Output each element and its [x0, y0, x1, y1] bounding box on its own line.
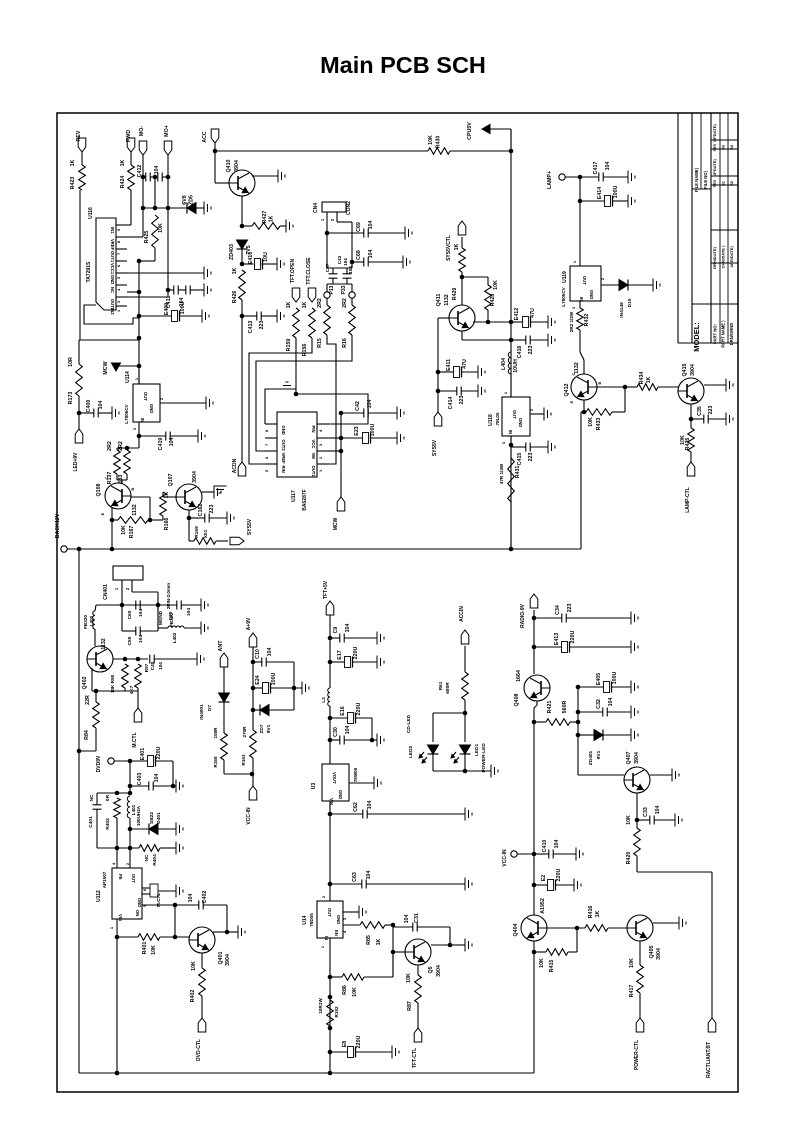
- svg-text:ON: ON: [135, 910, 140, 916]
- svg-text:220U: 220U: [356, 1035, 362, 1048]
- capacitor C412: [137, 165, 150, 182]
- svg-text:220U: 220U: [356, 702, 362, 715]
- svg-text:C48: C48: [150, 661, 155, 670]
- wire: [489, 129, 511, 151]
- wire: [252, 758, 254, 786]
- svg-text:R415: R415: [549, 960, 555, 973]
- svg-text:6V8: 6V8: [182, 195, 188, 204]
- svg-text:VOUT: VOUT: [332, 772, 337, 784]
- wire: [597, 385, 627, 390]
- svg-text:DRN/GRND: DRN/GRND: [729, 323, 734, 346]
- svg-text:C410: C410: [542, 840, 548, 853]
- svg-text:IN: IN: [324, 936, 329, 940]
- ground: [238, 926, 245, 939]
- capacitor C410: [542, 840, 560, 859]
- wire: [141, 175, 171, 180]
- ground: [574, 879, 581, 892]
- svg-text:C413: C413: [248, 321, 254, 334]
- IC U117 BA6287F: [277, 412, 317, 511]
- svg-text:U3: U3: [311, 783, 317, 790]
- svg-text:104: 104: [138, 609, 144, 617]
- capacitor C32: [596, 698, 614, 717]
- svg-text:1K: 1K: [120, 159, 126, 166]
- title block table: [678, 113, 738, 352]
- wire: [343, 911, 359, 913]
- wire: [608, 927, 627, 929]
- svg-text:RIN: RIN: [281, 466, 286, 473]
- wire: [330, 637, 377, 639]
- wire loop R15-OUT1: [327, 335, 336, 464]
- wire: [187, 516, 227, 521]
- svg-text:CN4: CN4: [313, 203, 319, 213]
- svg-text:104: 104: [366, 871, 372, 880]
- svg-text:R433: R433: [596, 418, 602, 431]
- wire: [704, 384, 726, 386]
- wire: [139, 315, 202, 317]
- terminal ACC: [202, 129, 219, 143]
- svg-text:VREF: VREF: [110, 239, 115, 251]
- svg-text:DVD9V: DVD9V: [96, 755, 102, 772]
- wire: [116, 818, 118, 848]
- ground: [628, 171, 635, 184]
- svg-text:OUT: OUT: [512, 410, 517, 419]
- svg-text:C35: C35: [697, 406, 703, 416]
- transistor Q108: [96, 476, 138, 515]
- ground: [286, 220, 293, 233]
- svg-text:UPDATE): UPDATE): [712, 159, 717, 177]
- wire: [174, 905, 176, 937]
- resistor R167: [118, 517, 148, 539]
- ground: [465, 878, 472, 891]
- terminal DVD-CTL: [196, 1018, 206, 1061]
- wire: [330, 739, 377, 741]
- wire: [534, 928, 577, 952]
- terminal TFT.OPEN: [290, 259, 300, 302]
- svg-text:REV: REV: [713, 143, 717, 151]
- svg-text:104: 104: [158, 662, 163, 670]
- svg-text:NC: NC: [110, 287, 115, 293]
- svg-text:FB320: FB320: [83, 615, 88, 629]
- wire: [137, 422, 142, 448]
- electrolytic E17: [337, 646, 359, 667]
- resistor R415: [539, 949, 568, 973]
- wire: [534, 853, 576, 855]
- wire BACK12V rail: [67, 547, 581, 552]
- capacitor C33: [643, 806, 661, 825]
- svg-text:100U: 100U: [370, 423, 376, 436]
- svg-text:NC: NC: [89, 794, 95, 801]
- wire: [601, 284, 619, 286]
- svg-text:C400: C400: [86, 400, 92, 413]
- transistor Q407: [624, 751, 650, 793]
- svg-text:IN2: IN2: [110, 308, 115, 315]
- svg-text:C401: C401: [88, 816, 94, 828]
- capacitor C70: [168, 601, 192, 621]
- resistor R417: [629, 958, 643, 997]
- svg-text:3904: 3904: [436, 965, 442, 977]
- wire: [112, 474, 127, 485]
- wire loop U116 pin1: [84, 305, 139, 324]
- svg-text:L7806CV: L7806CV: [124, 403, 129, 423]
- IC U114 L7806CV: [124, 371, 164, 430]
- electrolytic E411: [446, 359, 468, 378]
- svg-text:1K: 1K: [302, 301, 308, 308]
- wire: [110, 507, 115, 549]
- transistor Q405: [627, 915, 662, 960]
- svg-text:223: 223: [708, 406, 714, 415]
- ground: [278, 170, 285, 183]
- zener ZD5: [182, 195, 196, 214]
- capacitor C42: [355, 400, 373, 418]
- wire: [122, 605, 158, 631]
- terminal M.CTL: [132, 708, 142, 748]
- svg-text:RADIO-9V: RADIO-9V: [520, 603, 526, 628]
- wire: [350, 260, 403, 265]
- resistor R429: [452, 243, 465, 300]
- svg-text:C43: C43: [337, 255, 342, 264]
- wire VCC col: [339, 411, 344, 497]
- ground: [201, 622, 208, 635]
- wire: [637, 819, 675, 821]
- svg-text:CON2: CON2: [346, 201, 352, 215]
- title Main PCB SCH: [320, 52, 486, 78]
- ground: [672, 769, 679, 782]
- resistor R433: [586, 409, 612, 431]
- wire: [438, 318, 449, 412]
- svg-text:3904: 3904: [656, 948, 662, 960]
- svg-text:9V1: 9V1: [596, 750, 602, 759]
- svg-text:SYS5V: SYS5V: [247, 518, 253, 535]
- wire: [158, 604, 201, 606]
- svg-text:E: E: [569, 400, 574, 403]
- svg-text:E16: E16: [340, 706, 346, 715]
- wire: [137, 691, 139, 708]
- svg-text:104: 104: [154, 166, 160, 175]
- capacitor C401: [88, 805, 102, 828]
- wire: [156, 761, 176, 788]
- ground: [631, 612, 638, 625]
- svg-text:M.CTL: M.CTL: [156, 893, 161, 907]
- wire: [327, 232, 405, 234]
- svg-text:L400: L400: [89, 615, 94, 626]
- svg-text:R404: R404: [152, 854, 158, 866]
- svg-text:C: C: [104, 476, 109, 479]
- capacitor C67: [325, 263, 338, 278]
- electrolytic E8: [342, 1035, 362, 1057]
- svg-text:R417: R417: [629, 985, 635, 998]
- wire: [532, 941, 537, 1073]
- wire: [127, 208, 168, 297]
- svg-text:C403: C403: [137, 773, 143, 786]
- ground: [277, 310, 284, 323]
- resistor R427: [252, 211, 280, 230]
- resistor R61: [438, 672, 468, 700]
- wire: [215, 182, 229, 184]
- wire: [578, 711, 631, 713]
- wire: [113, 657, 148, 662]
- svg-text:OUT2: OUT2: [281, 440, 286, 452]
- svg-text:BACK12V: BACK12V: [55, 513, 61, 538]
- svg-text:VM: VM: [311, 453, 316, 460]
- wire: [534, 884, 574, 886]
- svg-text:U14: U14: [302, 915, 308, 924]
- ground: [631, 706, 638, 719]
- svg-text:C62: C62: [353, 802, 359, 812]
- ground: [377, 656, 384, 669]
- svg-text:CHK/DATE ): CHK/DATE ): [721, 245, 726, 268]
- wire: [511, 321, 548, 323]
- ground: [198, 430, 205, 443]
- svg-text:Q408: Q408: [514, 693, 520, 706]
- svg-text:C416: C416: [517, 346, 523, 359]
- wire: [139, 435, 198, 437]
- resistor R435: [680, 428, 694, 452]
- svg-text:IN: IN: [140, 418, 145, 422]
- svg-text:223: 223: [567, 604, 573, 613]
- svg-text:C402: C402: [202, 891, 208, 904]
- capacitor C417: [593, 162, 611, 182]
- svg-text:104: 104: [368, 250, 374, 259]
- svg-text:100R: 100R: [213, 727, 218, 739]
- svg-text:R192: R192: [334, 1006, 339, 1017]
- wire VCC bus: [137, 261, 142, 384]
- svg-text:Q402: Q402: [82, 676, 88, 689]
- wire: [639, 993, 641, 1018]
- ground: [374, 777, 381, 790]
- ground: [679, 917, 686, 930]
- wire: [223, 667, 225, 693]
- svg-text:LAMP+: LAMP+: [547, 171, 553, 189]
- svg-text:ACDN: ACDN: [232, 458, 238, 473]
- wire: [127, 236, 143, 238]
- ground: [631, 729, 638, 742]
- svg-text:ZD5: ZD5: [189, 195, 195, 205]
- ground: [204, 284, 211, 297]
- ground: [548, 334, 555, 347]
- IC U118 78L05: [488, 391, 534, 444]
- wire: [583, 400, 585, 412]
- ground: [397, 432, 404, 445]
- svg-text:E17: E17: [337, 650, 343, 659]
- ground: [214, 486, 227, 493]
- wire: [330, 952, 393, 977]
- wire: [227, 931, 238, 933]
- ground: [675, 814, 682, 827]
- wire: [417, 1003, 419, 1028]
- wire: [603, 176, 628, 178]
- svg-text:2R2: 2R2: [107, 441, 113, 451]
- svg-text:R86: R86: [342, 985, 348, 995]
- svg-text:104: 104: [154, 774, 160, 783]
- svg-text:E405: E405: [596, 673, 602, 685]
- wire: [689, 404, 694, 428]
- terminal VCC-IN right: [502, 849, 517, 867]
- transistor Q412: [564, 362, 602, 403]
- wire: [582, 410, 587, 415]
- capacitor C68: [356, 250, 374, 267]
- terminal SYS5V right: [230, 518, 253, 545]
- svg-text:R434: R434: [639, 372, 645, 385]
- wire bottom rail: [79, 1071, 534, 1076]
- wire: [534, 646, 631, 648]
- wire: [532, 610, 537, 674]
- diode D401 SB22: [149, 812, 162, 835]
- svg-text:E2: E2: [541, 875, 547, 882]
- svg-text:CN401: CN401: [103, 584, 109, 600]
- wire pin2: [330, 212, 352, 262]
- svg-text:SYS5V: SYS5V: [432, 439, 438, 456]
- svg-text:PART NAME ): PART NAME ): [721, 320, 726, 348]
- svg-text:10K R98: 10K R98: [110, 674, 115, 693]
- wire: [242, 263, 277, 265]
- wire: [137, 248, 155, 263]
- wire: [639, 941, 641, 965]
- wire: [464, 646, 466, 672]
- svg-text:10K: 10K: [588, 417, 594, 427]
- terminal RADIO-9V: [520, 594, 538, 628]
- svg-text:ZD403: ZD403: [229, 244, 235, 260]
- svg-text:IN4148: IN4148: [619, 302, 625, 318]
- svg-text:GND: GND: [281, 426, 286, 435]
- wire: [532, 854, 537, 912]
- svg-text:1K: 1K: [269, 215, 275, 222]
- svg-text:R156: R156: [302, 344, 308, 357]
- svg-text:TFT.CLOSE: TFT.CLOSE: [306, 257, 312, 285]
- svg-text:104: 104: [188, 894, 194, 903]
- svg-text:78W05: 78W05: [353, 767, 358, 782]
- terminal TFT.CLOSE: [306, 257, 316, 302]
- resistor R404: [139, 845, 160, 866]
- wire: [160, 935, 189, 940]
- wire: [188, 510, 190, 541]
- wire: [327, 262, 352, 292]
- wire: [224, 760, 254, 776]
- svg-text:B: B: [130, 487, 135, 490]
- ground: [227, 512, 234, 525]
- wire: [112, 497, 163, 522]
- ground: [176, 780, 183, 793]
- svg-text:E: E: [100, 512, 105, 515]
- terminal ACDN: [232, 458, 246, 476]
- svg-text:R173: R173: [68, 392, 74, 405]
- IC U119 L7805CV: [561, 260, 605, 309]
- svg-text:VCC1: VCC1: [110, 263, 115, 275]
- wire: [327, 298, 352, 305]
- svg-text:223: 223: [459, 396, 465, 405]
- capacitor C9: [333, 624, 351, 643]
- wire: [130, 828, 176, 830]
- wire: [628, 284, 653, 286]
- svg-text:100U: 100U: [271, 672, 277, 685]
- svg-text:PART NO:: PART NO:: [713, 324, 718, 344]
- transistor Q401: [189, 927, 231, 966]
- svg-text:R426: R426: [232, 291, 238, 304]
- svg-text:680R: 680R: [445, 682, 451, 694]
- wire: [252, 175, 278, 177]
- ground: [478, 366, 485, 379]
- svg-text:R424: R424: [120, 176, 126, 189]
- svg-text:C68: C68: [356, 250, 362, 260]
- wire: [330, 718, 374, 742]
- wire: [127, 224, 131, 226]
- wire: [330, 1051, 392, 1053]
- svg-text:R428: R428: [490, 294, 496, 307]
- svg-text:TA7291S: TA7291S: [86, 261, 92, 282]
- wire: [163, 492, 176, 497]
- svg-text:C42: C42: [355, 401, 361, 411]
- svg-text:FILE NAME): FILE NAME): [694, 167, 699, 192]
- resistor R432: [569, 308, 590, 332]
- wire: [79, 728, 96, 751]
- svg-text:AP1507: AP1507: [102, 871, 107, 888]
- svg-text:CPU5V: CPU5V: [467, 122, 473, 140]
- svg-text:10K: 10K: [191, 961, 197, 971]
- wire: [223, 702, 225, 733]
- capacitor C419: [158, 432, 175, 451]
- svg-text:GND: GND: [110, 275, 115, 284]
- ground: [726, 413, 733, 426]
- capacitor C48: [144, 655, 155, 673]
- electrolytic E401: [140, 746, 162, 766]
- svg-text:E414: E414: [597, 187, 603, 199]
- capacitor C62: [353, 801, 373, 819]
- svg-text:1K: 1K: [646, 376, 652, 383]
- capacitor C35: [697, 406, 714, 424]
- svg-text:E412: E412: [514, 308, 520, 320]
- terminal MO-: [139, 126, 147, 155]
- electrolytic E16: [340, 702, 362, 723]
- resistor R84: [84, 695, 99, 740]
- svg-text:MCW: MCW: [333, 517, 339, 530]
- svg-text:NC: NC: [144, 854, 150, 861]
- resistor R434: [637, 372, 658, 391]
- svg-text:VCC-IN: VCC-IN: [246, 807, 252, 825]
- wire: [534, 720, 580, 725]
- wire: [436, 389, 478, 394]
- svg-text:1K: 1K: [232, 267, 238, 274]
- svg-text:220U: 220U: [353, 646, 359, 659]
- capacitor C415: [517, 443, 534, 466]
- svg-text:VREF: VREF: [281, 453, 286, 465]
- ground: [201, 599, 208, 612]
- wire: [114, 759, 148, 764]
- svg-text:10R: 10R: [68, 357, 74, 367]
- label CD-LED: [406, 714, 412, 733]
- ground: [359, 906, 366, 919]
- ground: [465, 808, 472, 821]
- ground: [112, 407, 119, 420]
- wire ACDN drop: [241, 316, 243, 462]
- electrolytic E413: [554, 630, 576, 652]
- svg-text:104: 104: [655, 806, 661, 815]
- svg-text:C32: C32: [596, 699, 602, 709]
- wire: [391, 950, 405, 955]
- wire: [463, 700, 468, 742]
- svg-text:R421: R421: [547, 701, 553, 714]
- electrolytic E414: [597, 185, 619, 206]
- resistor R421: [546, 700, 570, 725]
- svg-text:104: 104: [343, 258, 348, 266]
- label 2PIN-2.0mm: [166, 583, 171, 609]
- electrolytic E2: [541, 868, 562, 890]
- wire: [349, 782, 374, 784]
- svg-text:EN: EN: [334, 930, 339, 936]
- svg-text:L7805CV: L7805CV: [561, 286, 566, 306]
- svg-text:10K: 10K: [493, 280, 499, 290]
- svg-text:1K: 1K: [376, 938, 382, 945]
- svg-text:10K: 10K: [629, 958, 635, 968]
- LED LED2: [408, 745, 439, 763]
